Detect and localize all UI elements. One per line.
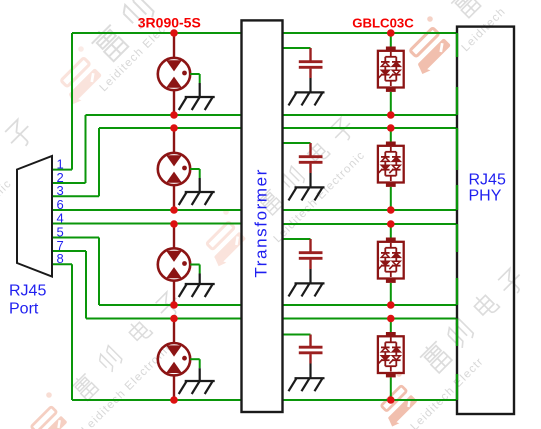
wire: PHY pin stub vertical bbox=[456, 87, 458, 115]
watermark char zi E bbox=[496, 267, 528, 299]
wire: center-tap stub ch2 bbox=[283, 142, 311, 144]
wire: center-tap stub ch4 bbox=[283, 334, 311, 336]
junction node GDT column y=33 bbox=[170, 29, 178, 37]
watermark char zi C2 bbox=[328, 116, 357, 145]
svg-text:Port: Port bbox=[9, 300, 39, 317]
wire: pair3+ row right (transformer to PHY) bbox=[283, 223, 458, 225]
wire: TVS D4 bottom stem bbox=[390, 377, 392, 400]
wire: pair1- row right (transformer to PHY) bbox=[283, 114, 458, 116]
capacitor C1 (center tap) bbox=[299, 48, 323, 78]
TVS diode array D1 (GBLC03C) bbox=[378, 47, 404, 92]
watermark char zi C1 bbox=[153, 290, 184, 321]
wire: pin1 vertical riser bbox=[71, 33, 73, 170]
wire: pin5 vertical drop bbox=[98, 238, 100, 306]
wire: C1 ground stem bbox=[309, 78, 311, 92]
wire: pin6 row (pair2-) bbox=[52, 209, 242, 211]
wire: PHY edge overlay bbox=[456, 319, 458, 347]
wire: PHY pin stub vertical bbox=[456, 185, 458, 210]
wire: PHY pin stub vertical bbox=[456, 319, 458, 347]
watermark logo L2 bbox=[404, 27, 453, 76]
junction node GDT column y=115 bbox=[170, 111, 178, 119]
watermark char dian C1 bbox=[126, 318, 153, 345]
wire: pin8 stub bbox=[52, 263, 72, 265]
watermark char lei C2 bbox=[255, 187, 285, 217]
wire: TVS D2 top stem bbox=[390, 128, 392, 142]
wire: PHY edge overlay bbox=[456, 33, 458, 57]
junction node TVS column y=318.5 bbox=[387, 315, 395, 323]
ground for C3 bbox=[289, 283, 325, 296]
watermark logo L4 bbox=[376, 385, 419, 428]
watermark char lei E bbox=[418, 339, 454, 375]
gas discharge tube GDT1 (3R090-5S) bbox=[158, 33, 190, 115]
wire: pin8 vertical drop bbox=[71, 264, 73, 400]
wire: pair2+ row left bbox=[99, 127, 242, 129]
watermark logo L1 bbox=[55, 57, 104, 106]
junction node GDT column y=210 bbox=[170, 206, 178, 214]
ground for GDT4 bbox=[179, 381, 215, 394]
wire: center-tap stub ch1 bbox=[283, 47, 311, 49]
wire: PHY edge overlay bbox=[456, 224, 458, 252]
junction node TVS column y=400 bbox=[387, 396, 395, 404]
RJ45 PHY U2 box bbox=[457, 27, 514, 414]
wire: PHY pin stub vertical bbox=[456, 128, 458, 170]
wire: pin2 vertical riser bbox=[85, 115, 87, 183]
junction node TVS column y=224 bbox=[387, 220, 395, 228]
junction node GDT column y=224 bbox=[170, 220, 178, 228]
wire: pair4- row left bbox=[72, 399, 242, 401]
watermark char lei A bbox=[89, 22, 131, 64]
wire: pair1+ row right (transformer to PHY) bbox=[283, 32, 458, 34]
wire: pair4- row right (transformer to PHY) bbox=[283, 399, 458, 401]
wire: PHY edge overlay bbox=[456, 374, 458, 400]
wire: pair3- row left bbox=[99, 304, 242, 306]
watermark logo L5 bbox=[201, 221, 248, 268]
wire: TVS D3 bottom stem bbox=[390, 283, 392, 305]
wire: pair4+ row left bbox=[86, 318, 242, 320]
wire: pair2- row right (transformer to PHY) bbox=[283, 209, 458, 211]
capacitor C4 (center tap) bbox=[299, 335, 323, 364]
wire: PHY pin stub vertical bbox=[456, 374, 458, 400]
TVS diode array D3 (GBLC03C) bbox=[378, 238, 404, 283]
capacitor C2 (center tap) bbox=[299, 143, 323, 173]
wire: pin4 row (pair3+) bbox=[52, 223, 242, 225]
wire: pair4+ row right (transformer to PHY) bbox=[283, 318, 458, 320]
TVS diode array D2 (GBLC03C) bbox=[378, 142, 404, 187]
gas discharge tube GDT2 (3R090-5S) bbox=[158, 128, 190, 210]
TVS diode array D4 (GBLC03C) bbox=[378, 332, 404, 377]
wire: TVS D1 bottom stem bbox=[390, 92, 392, 115]
ground for C4 bbox=[289, 378, 325, 391]
svg-text:4: 4 bbox=[57, 210, 64, 225]
watermark char mao C1 bbox=[96, 346, 123, 373]
wire: PHY pin stub vertical bbox=[456, 33, 458, 57]
wire: PHY pin stub vertical bbox=[456, 224, 458, 252]
svg-text:PHY: PHY bbox=[469, 187, 502, 204]
svg-text:RJ45: RJ45 bbox=[9, 283, 46, 300]
wire: pin5 stub bbox=[52, 237, 99, 239]
svg-text:3R090-5S: 3R090-5S bbox=[138, 14, 201, 30]
wire: pin3 vertical riser bbox=[98, 128, 100, 196]
junction node GDT column y=305 bbox=[170, 301, 178, 309]
junction node GDT column y=128 bbox=[170, 124, 178, 132]
RJ45 Port connector J1 bbox=[17, 156, 52, 277]
ground for GDT1 bbox=[179, 97, 215, 110]
ground for GDT2 bbox=[179, 192, 215, 205]
ground for GDT3 bbox=[179, 284, 215, 297]
svg-text:RJ45: RJ45 bbox=[469, 172, 506, 189]
junction node TVS column y=33 bbox=[387, 29, 395, 37]
wire: pin3 stub bbox=[52, 195, 99, 197]
watermark char dian C2 bbox=[304, 139, 329, 164]
wire: pin1 stub bbox=[52, 169, 72, 171]
wire: PHY edge overlay bbox=[456, 128, 458, 170]
watermark char mao C2 bbox=[280, 166, 306, 192]
wire: TVS D1 top stem bbox=[390, 33, 392, 47]
wire: pin7 vertical drop bbox=[85, 251, 87, 319]
wire: PHY edge overlay bbox=[456, 278, 458, 305]
wire: PHY edge overlay bbox=[456, 185, 458, 210]
wire: GDT4 ground hookup bbox=[190, 359, 200, 381]
watermark char mao E bbox=[444, 318, 475, 349]
wire: PHY pin stub vertical bbox=[456, 278, 458, 305]
wire: PHY edge overlay bbox=[456, 87, 458, 115]
gas discharge tube GDT3 (3R090-5S) bbox=[158, 224, 190, 305]
wire: TVS D4 top stem bbox=[390, 319, 392, 333]
svg-text:Transformer: Transformer bbox=[252, 168, 271, 278]
wire: GDT3 ground hookup bbox=[190, 265, 200, 285]
junction node TVS column y=305 bbox=[387, 301, 395, 309]
ground for C1 bbox=[289, 92, 325, 105]
capacitor C3 (center tap) bbox=[299, 239, 323, 269]
junction node TVS column y=115 bbox=[387, 111, 395, 119]
wire: TVS D2 bottom stem bbox=[390, 187, 392, 210]
wire: pin7 stub bbox=[52, 250, 86, 252]
watermark char lei C1 bbox=[69, 371, 100, 402]
watermark char zi A bbox=[3, 118, 37, 152]
junction node TVS column y=210 bbox=[387, 206, 395, 214]
wire: C3 ground stem bbox=[309, 269, 311, 283]
wire: C4 ground stem bbox=[309, 364, 311, 379]
junction node GDT column y=318.5 bbox=[170, 315, 178, 323]
junction node TVS column y=128 bbox=[387, 124, 395, 132]
svg-text:8: 8 bbox=[57, 251, 64, 266]
wire: C2 ground stem bbox=[309, 173, 311, 187]
junction node GDT column y=400 bbox=[170, 396, 178, 404]
watermark char dian E bbox=[471, 290, 500, 319]
gas discharge tube GDT4 (3R090-5S) bbox=[158, 319, 190, 401]
wire: GDT1 ground hookup bbox=[190, 74, 200, 97]
watermark logo L3 bbox=[26, 406, 69, 429]
wire: pair3- row right (transformer to PHY) bbox=[283, 304, 458, 306]
svg-text:GBLC03C: GBLC03C bbox=[352, 15, 414, 30]
wire: pair2+ row right (transformer to PHY) bbox=[283, 127, 458, 129]
ground for C2 bbox=[289, 187, 325, 200]
wire: pair1+ row left (pin1 to transformer) bbox=[72, 32, 242, 34]
wire: GDT2 ground hookup bbox=[190, 169, 200, 192]
wire: pin2 stub bbox=[52, 182, 86, 184]
watermark char lei C3 bbox=[449, 0, 483, 19]
wire: pair1- row left bbox=[86, 114, 242, 116]
transformer T1 box bbox=[242, 20, 283, 412]
wire: center-tap stub ch3 bbox=[283, 238, 311, 240]
wire: TVS D3 top stem bbox=[390, 224, 392, 238]
watermark char mao A bbox=[119, 0, 156, 30]
